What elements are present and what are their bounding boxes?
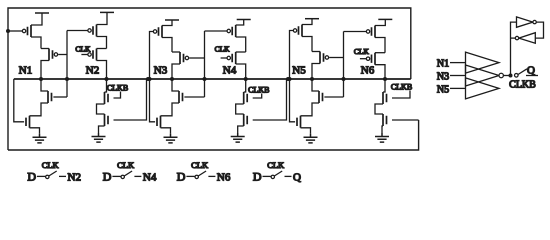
wire: MP5b source lead [312, 51, 320, 53]
transistor MP6a (input PMOS) [372, 26, 376, 38]
transistor MN4b (bottom NMOS) [244, 114, 248, 126]
wire: node bus to MN1b gate [14, 79, 24, 122]
switch contact at node Q [515, 74, 519, 78]
switch contact 1 [46, 175, 49, 178]
node N1 junction [39, 77, 43, 81]
power VDD stage 5 [305, 18, 319, 20]
svg-text:D: D [27, 170, 36, 184]
wire: MN5a gate lead [324, 96, 343, 98]
power VDD stage 3 [165, 19, 179, 21]
svg-text:D: D [253, 170, 262, 184]
wire: MP2a drain to MP2b source [97, 37, 107, 49]
svg-text:CLK: CLK [354, 47, 370, 56]
wire: gate output to node Q [503, 75, 510, 77]
wire: MN1b source to ground [30, 128, 40, 134]
transistor MN6a (CLKB NMOS) [383, 92, 387, 104]
transistor MN3b (bottom NMOS) [157, 116, 161, 128]
inverter triangle 3 of output gate [466, 78, 500, 99]
svg-text:Q: Q [527, 65, 535, 77]
node input junction stage 5 [288, 77, 292, 81]
wire: output lead switch 4 [285, 175, 292, 177]
wire: feedback rail to MP1a gate [8, 30, 22, 32]
wire: input rise to MP5a gate [290, 31, 294, 80]
transistor MP3b (clocked PMOS) [180, 52, 184, 64]
wire: bottom feedback rail [8, 120, 419, 150]
svg-text:N4: N4 [143, 172, 157, 184]
wire: MP5a drain to MP5b source [302, 37, 312, 52]
inverter triangle 1 of output gate [466, 52, 500, 73]
node N5 junction [310, 77, 314, 81]
transistor MN3a (clocked NMOS) [179, 91, 183, 103]
svg-text:CLKB: CLKB [391, 83, 412, 92]
transistor MN2b (bottom NMOS) [105, 114, 109, 126]
wire: D lead switch 2 [112, 175, 120, 177]
bubble keeper top inverter [533, 20, 536, 23]
wire: MP6a drain to MP6b source [375, 38, 385, 53]
wire: CLK stub to MP2b gate [81, 54, 87, 56]
wire: CLK stub to MP4b gate [221, 57, 227, 59]
svg-text:CLKB: CLKB [248, 86, 269, 95]
wire: MP5b drain to node N5 [312, 64, 320, 80]
wire: keeper bottom output to Q rail [511, 37, 516, 39]
wire: MN6b gate to bottom feedback rail [392, 119, 419, 121]
wire: clock tie vertical stage 5 [343, 32, 345, 98]
wire: input to MP6a gate [344, 31, 367, 33]
svg-text:Q: Q [293, 172, 301, 184]
wire: MP4a drain to MP4b source [236, 37, 246, 52]
transistor MN1a (clocked NMOS) [48, 91, 52, 103]
node N3 junction [170, 77, 174, 81]
svg-text:N6: N6 [361, 65, 375, 77]
wire: MN5a source to MN5b drain [301, 103, 320, 116]
wire: MP6a source to VDD [375, 19, 385, 25]
inverter keeper bottom (points left) [519, 33, 536, 44]
wire: MN4a source to MN4b drain [236, 104, 244, 114]
wire: output lead switch 2 [134, 175, 141, 177]
wire: MN6a gate to CLKB stub [392, 91, 410, 99]
wire: MN1a drain to node N1 [41, 79, 48, 91]
wire: MP4b drain to node N4 [236, 64, 246, 79]
wire: MP3b drain to node N3 [172, 64, 180, 79]
node tie junction stage 1 [65, 77, 69, 81]
bubble on output gate [499, 73, 503, 77]
wire: input to MP2a gate [67, 30, 88, 32]
wire: switch to Q output [526, 75, 538, 77]
svg-text:CLK: CLK [191, 160, 209, 170]
transistor MP4b (CLK PMOS) [232, 52, 236, 64]
svg-text:N6: N6 [217, 172, 231, 184]
svg-text:N3: N3 [437, 71, 449, 82]
wire: input rise to MP3a gate [150, 32, 154, 80]
wire: clock tie vertical stage 3 [204, 31, 206, 97]
wire: MN4b gate tie to next node [253, 79, 287, 120]
svg-text:N1: N1 [437, 59, 449, 70]
node N2 junction [105, 77, 109, 81]
wire: MP1b gate lead [58, 54, 67, 56]
inverter triangle 2 of output gate [466, 65, 500, 86]
wire: input to MP4a gate [205, 30, 228, 32]
power VDD stage 1 [35, 12, 49, 14]
transistor MP6b (CLK PMOS) [372, 53, 376, 65]
wire: MP2a source to VDD [97, 12, 108, 24]
transistor MN2a (CLKB NMOS) [105, 92, 109, 104]
transistor MP5b (clocked PMOS) [320, 52, 324, 64]
ground stage 1 [33, 134, 47, 143]
wire: MP1b source lead [41, 48, 49, 50]
node tie junction stage 4 [286, 77, 290, 81]
wire: MN3a source to MN3b drain [161, 103, 180, 116]
power VDD stage 4 [237, 19, 251, 21]
transistor MP2a (input PMOS) [93, 25, 97, 37]
wire: MP1a source to VDD [31, 13, 42, 25]
wire: MN2b source to ground [99, 126, 105, 133]
wire: MP3a drain to MP3b source [162, 38, 172, 53]
svg-text:D: D [177, 170, 186, 184]
transistor MN5b (bottom NMOS) [297, 116, 301, 128]
ground stage 5 [304, 134, 318, 143]
node N6 junction [383, 77, 387, 81]
power VDD stage 6 [378, 18, 392, 20]
wire: CLK stub to MP6b gate [360, 58, 366, 60]
switch contact 2 [121, 175, 124, 178]
wire: MP2b source lead [97, 48, 107, 50]
wire: MN3a drain to node N3 [172, 79, 179, 91]
svg-text:N2: N2 [68, 172, 81, 184]
wire: MN4b source to ground [238, 126, 244, 133]
transistor MN1b (bottom NMOS) [26, 116, 30, 128]
wire: MN4a drain to node N4 [244, 79, 246, 92]
wire: MN2a gate to CLKB stub [114, 92, 121, 99]
node Q junction [509, 74, 513, 78]
wire: output lead switch 3 [208, 175, 215, 177]
switch blade CLKB [518, 69, 527, 75]
wire: MP6b drain to node N6 [375, 65, 385, 79]
wire: keeper top output to bottom input [535, 22, 543, 38]
svg-text:CLK: CLK [267, 160, 285, 170]
ground stage 4 [231, 133, 245, 142]
switch contact 3 [195, 175, 198, 178]
wire: MN5a drain to node N5 [312, 79, 319, 91]
svg-text:CLK: CLK [42, 160, 60, 170]
wire: D lead switch 1 [37, 175, 45, 177]
svg-text:CLK: CLK [117, 160, 135, 170]
wire: MP1a drain to MP1b source [31, 37, 41, 49]
wire: D lead switch 4 [263, 175, 271, 177]
transistor MP1a (input PMOS) [28, 25, 32, 37]
wire: MP3a source to VDD [162, 20, 172, 26]
node tie junction stage 5 [342, 77, 346, 81]
inverter keeper top (points right) [517, 17, 533, 27]
wire: MP5b gate lead [329, 57, 343, 59]
switch blade CLK 4 [274, 171, 282, 176]
svg-text:N1: N1 [19, 65, 32, 77]
wire: MN4a gate to CLKB stub [253, 94, 262, 99]
wire: N5 input to output gate [450, 87, 466, 89]
wire: output lead switch 1 [59, 175, 66, 177]
switch blade CLK 1 [49, 171, 57, 176]
wire: MN2a drain to node N2 [105, 79, 107, 92]
wire: MN3a gate lead [184, 96, 204, 98]
ground stage 2 [92, 133, 106, 142]
switch blade CLK 3 [198, 171, 206, 176]
switch blade CLK 2 [124, 171, 132, 176]
svg-text:N5: N5 [437, 84, 449, 95]
svg-text:N3: N3 [154, 65, 168, 77]
wire: D lead switch 3 [186, 175, 194, 177]
transistor MP1b (clocked PMOS) [49, 49, 53, 61]
wire: MP3b source lead [172, 51, 180, 53]
transistor MP4a (input PMOS) [232, 25, 236, 37]
wire: MP1b drain to node N1 [41, 61, 49, 80]
wire: MN2a source to MN2b drain [97, 104, 105, 114]
wire: MN6a source to MN6b drain [375, 104, 383, 114]
wire: MP4b source lead [236, 51, 246, 53]
wire: MN5b source to ground [301, 128, 311, 134]
wire: MN2b gate tie to next node [114, 79, 147, 120]
wire: MN3b source to ground [161, 128, 171, 134]
transistor MP2b (CLK PMOS) [93, 49, 97, 61]
wire: MN6b source to ground [382, 126, 383, 133]
switch contact 4 [271, 175, 274, 178]
wire: MP4a source to VDD [236, 20, 244, 26]
wire: left + top feedback rail [8, 8, 411, 150]
wire: MN1a gate lead [53, 96, 67, 98]
transistor MN5a (clocked NMOS) [319, 91, 323, 103]
node N4 junction [244, 77, 248, 81]
transistor MP5a (input PMOS) [299, 25, 303, 37]
bubble keeper bottom inverter [515, 36, 518, 39]
svg-text:N2: N2 [86, 65, 99, 77]
wire: N3 input to output gate [450, 75, 466, 77]
wire: MP6b source lead [375, 52, 385, 54]
power VDD stage 2 [100, 11, 114, 13]
node input junction stage 3 [148, 77, 152, 81]
svg-text:CLK: CLK [215, 45, 231, 54]
wire: input drop to MN3b gate [150, 79, 156, 122]
transistor MN4a (CLKB NMOS) [244, 92, 248, 104]
ground stage 6 [375, 133, 389, 142]
svg-text:N5: N5 [292, 65, 306, 77]
svg-text:CLKB: CLKB [107, 84, 128, 93]
wire: MN6a drain to node N6 [383, 79, 385, 92]
node tie junction stage 3 [203, 77, 207, 81]
wire: MN1a source to MN1b drain [30, 103, 49, 116]
wire: node bus N1..N6 [14, 78, 411, 80]
wire: MP5a source to VDD [302, 19, 312, 25]
ground stage 3 [164, 134, 178, 143]
wire: MP2b drain to node N2 [97, 61, 107, 80]
transistor MP3a (input PMOS) [159, 26, 163, 38]
wire: node Q up to keeper latch [511, 22, 517, 75]
svg-text:D: D [103, 170, 112, 184]
wire: input drop to MN5b gate [290, 79, 296, 122]
node tie junction stage 2 [146, 77, 150, 81]
wire: MP3b gate lead [189, 57, 204, 59]
wire: N1 input to output gate [450, 62, 466, 64]
svg-text:CLK: CLK [75, 45, 91, 54]
node: feedback tap on left rail [6, 29, 10, 33]
transistor MN6b (bottom NMOS) [383, 114, 387, 126]
svg-text:N4: N4 [223, 65, 237, 77]
wire: clock tie vertical stage 1 [66, 31, 68, 98]
svg-text:CLKB: CLKB [509, 80, 536, 91]
